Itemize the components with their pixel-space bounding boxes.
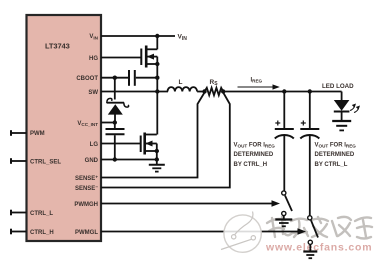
wire PWMGH with arrow: [101, 200, 280, 206]
junction CBOOT/diode: [113, 76, 117, 80]
ground symbol switch S2: [303, 244, 317, 258]
junction Q1 source / SW rail: [155, 62, 159, 66]
wire VIN pin to VIN node: [101, 35, 175, 37]
svg-text:SENSE−: SENSE−: [75, 185, 98, 193]
watermark logo circle: [221, 212, 261, 253]
plus sign cap1: [275, 121, 280, 126]
wire Q1 source down to SW: [156, 57, 158, 92]
LED light arrows: [350, 104, 360, 113]
junction VIN/Q1 drain: [155, 34, 159, 38]
wire SENSE- kelvin: [101, 93, 230, 188]
svg-text:PWM: PWM: [30, 131, 45, 137]
wire VCC_INT pin: [101, 122, 116, 124]
wire CBOOT junction down to diode: [114, 78, 116, 100]
svg-text:LED LOAD: LED LOAD: [322, 83, 354, 90]
wire HG to Q1 gate: [101, 57, 141, 59]
svg-text:HG: HG: [89, 56, 98, 62]
IC U1 LT3743 body: [27, 15, 102, 241]
svg-text:CTRL_SEL: CTRL_SEL: [30, 160, 61, 166]
wire inductor to RS: [197, 91, 204, 93]
svg-text:VOUT FOR IREG: VOUT FOR IREG: [315, 143, 357, 149]
ground symbol power GND: [149, 160, 165, 172]
wire CBOOT to capacitor: [101, 77, 128, 79]
watermark chinese characters: [267, 217, 372, 239]
LED D2: [334, 100, 350, 121]
wire Q2 source to GND rail: [156, 144, 158, 160]
svg-text:LG: LG: [90, 142, 99, 148]
capacitor CBOOT: [129, 70, 135, 86]
junction Q2 source: [155, 149, 159, 153]
wire SENSE+ kelvin: [101, 93, 205, 178]
Q2 body arrow: [145, 141, 152, 147]
wire CTRL_H stub: [11, 229, 27, 235]
svg-text:CBOOT: CBOOT: [76, 76, 98, 82]
capacitor C output 2: [300, 92, 319, 216]
svg-text:DETERMINED: DETERMINED: [234, 152, 274, 158]
svg-text:LT3743: LT3743: [45, 42, 70, 51]
junction output cap1 top: [282, 89, 286, 93]
wire SW rail down to Q2 drain: [156, 92, 158, 135]
wire PWM stub: [11, 130, 27, 136]
wire RS to LED rail: [223, 91, 341, 93]
wire PWMGL with arrow: [101, 228, 306, 234]
svg-text:VIN: VIN: [89, 34, 98, 40]
svg-text:SW: SW: [88, 90, 98, 96]
junction RS left: [202, 89, 206, 93]
junction RS right: [221, 89, 225, 93]
switch S1 (CTRL_H output): [282, 191, 292, 216]
inductor L: [168, 87, 198, 91]
transistor Q2 low-side NMOS: [141, 133, 157, 155]
svg-text:RS: RS: [210, 79, 219, 87]
svg-text:BY CTRL_L: BY CTRL_L: [315, 162, 348, 168]
svg-text:SENSE+: SENSE+: [75, 174, 98, 182]
junction GND/Q2: [155, 157, 159, 161]
ground symbol switch S1: [275, 216, 292, 227]
junction VCC_INT: [113, 120, 117, 124]
svg-text:DETERMINED: DETERMINED: [315, 152, 355, 158]
capacitor C output 1: [275, 92, 294, 191]
svg-text:VOUT FOR IREG: VOUT FOR IREG: [234, 143, 276, 149]
junction SW: [155, 89, 159, 93]
wire GND pin: [101, 159, 157, 161]
svg-text:PWMGH: PWMGH: [74, 202, 98, 208]
wire CTRL_L stub: [11, 210, 27, 216]
svg-text:www.elecfans.com: www.elecfans.com: [265, 242, 372, 254]
wire LG to Q2 gate: [101, 143, 140, 145]
svg-text:GND: GND: [85, 158, 99, 164]
svg-text:IREG: IREG: [251, 78, 263, 84]
wire CBOOT cap to SW rail: [136, 77, 158, 79]
IREG arrow: [238, 84, 280, 89]
diode D1 schottky CBOOT: [107, 98, 129, 122]
wire CTRL_SEL stub: [11, 158, 27, 164]
switch S2 (CTRL_L output): [308, 216, 318, 245]
Q1 body arrow: [147, 54, 154, 60]
junction GND/VCC cap: [113, 157, 117, 161]
svg-text:CTRL_H: CTRL_H: [30, 230, 54, 236]
resistor RS: [205, 88, 224, 95]
svg-text:CTRL_L: CTRL_L: [30, 211, 53, 217]
svg-text:L: L: [179, 79, 183, 86]
ground symbol LED: [332, 121, 351, 130]
transistor Q1 high-side NMOS: [141, 46, 157, 68]
junction cap/SW rail: [155, 76, 159, 80]
svg-text:VIN: VIN: [178, 34, 188, 42]
wire VIN down to Q1 drain: [156, 36, 158, 49]
wire rail down to LED: [341, 92, 343, 101]
plus sign cap2: [301, 121, 306, 126]
junction output cap2 top: [308, 89, 312, 93]
svg-text:BY CTRL_H: BY CTRL_H: [234, 162, 268, 168]
svg-text:VCC_INT: VCC_INT: [77, 121, 98, 127]
capacitor VCC_INT: [106, 123, 125, 160]
svg-text:PWMGL: PWMGL: [75, 230, 98, 236]
wire SW pin to inductor: [101, 91, 168, 93]
